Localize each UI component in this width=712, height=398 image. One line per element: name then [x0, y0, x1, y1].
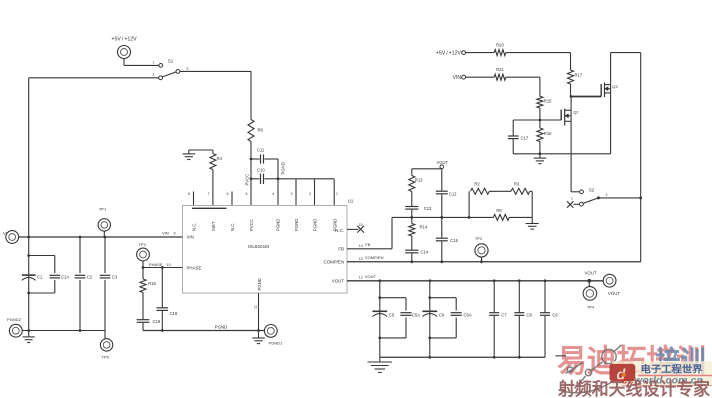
svg-text:TP2: TP2 — [475, 236, 483, 241]
svg-text:PHASE: PHASE — [149, 262, 163, 267]
svg-text:C14: C14 — [421, 249, 429, 254]
svg-text:R16: R16 — [544, 131, 552, 136]
svg-text:Q3: Q3 — [612, 84, 618, 89]
svg-text:3: 3 — [186, 67, 188, 71]
svg-text:S1: S1 — [168, 59, 174, 64]
svg-text:C15: C15 — [450, 238, 458, 243]
svg-text:VIN: VIN — [187, 234, 194, 239]
svg-text:1: 1 — [153, 61, 155, 65]
svg-text:7: 7 — [208, 192, 210, 196]
svg-text:PGND: PGND — [257, 278, 262, 290]
svg-text:VIN: VIN — [162, 231, 169, 236]
svg-text:3: 3 — [606, 193, 608, 197]
svg-text:ISL8201M: ISL8201M — [248, 244, 269, 249]
svg-text:14: 14 — [359, 244, 363, 248]
svg-text:C5: C5 — [389, 313, 395, 318]
svg-text:1: 1 — [571, 197, 573, 201]
svg-text:ISET: ISET — [211, 221, 216, 231]
svg-text:COMP/EN: COMP/EN — [365, 255, 384, 260]
svg-text:C6A: C6A — [464, 313, 472, 318]
svg-text:PGND: PGND — [294, 219, 299, 231]
svg-text:R13: R13 — [415, 177, 423, 182]
svg-text:R2: R2 — [474, 182, 480, 187]
svg-text:COMP/EN: COMP/EN — [324, 260, 345, 265]
svg-text:TP1: TP1 — [99, 207, 107, 212]
svg-text:PGND: PGND — [281, 162, 286, 174]
svg-text:10: 10 — [167, 263, 171, 267]
svg-text:2: 2 — [309, 192, 311, 196]
svg-text:R21: R21 — [496, 67, 504, 72]
svg-text:C8: C8 — [527, 313, 533, 318]
svg-text:FB: FB — [338, 246, 344, 251]
svg-text:11: 11 — [254, 305, 258, 309]
svg-text:VOUT: VOUT — [365, 274, 377, 279]
svg-text:VOUT: VOUT — [436, 160, 448, 165]
svg-text:PVCC: PVCC — [249, 219, 254, 231]
svg-text:13: 13 — [359, 257, 363, 261]
svg-text:电子工程世界: 电子工程世界 — [641, 364, 704, 375]
svg-text:R8: R8 — [258, 128, 264, 133]
svg-text:C12: C12 — [449, 191, 457, 196]
svg-text:C2: C2 — [87, 275, 93, 280]
svg-text:PHASE: PHASE — [187, 265, 202, 270]
svg-text:C18: C18 — [153, 319, 161, 324]
svg-text:S2: S2 — [589, 187, 595, 192]
svg-text:射频和天线设计专家: 射频和天线设计专家 — [557, 379, 710, 398]
svg-text:R14: R14 — [420, 225, 428, 230]
svg-text:C5A: C5A — [412, 313, 420, 318]
svg-text:R3: R3 — [514, 182, 520, 187]
svg-text:R18: R18 — [148, 281, 156, 286]
svg-text:U1: U1 — [348, 199, 354, 204]
svg-text:C1: C1 — [37, 275, 43, 280]
svg-text:C1A: C1A — [61, 275, 69, 280]
svg-text:12: 12 — [359, 276, 363, 280]
svg-text:TP4: TP4 — [587, 304, 595, 309]
svg-text:+5V / +12V: +5V / +12V — [111, 37, 137, 43]
svg-text:3: 3 — [291, 192, 293, 196]
svg-text:PVCC: PVCC — [245, 174, 250, 186]
svg-text:R17: R17 — [575, 73, 583, 78]
svg-text:PGND: PGND — [276, 219, 281, 231]
svg-text:VOUT: VOUT — [608, 291, 621, 296]
svg-text:R20: R20 — [496, 42, 504, 47]
svg-text:FB: FB — [365, 242, 370, 247]
svg-text:R15: R15 — [544, 98, 552, 103]
svg-text:15: 15 — [359, 223, 363, 227]
svg-text:1: 1 — [153, 73, 155, 77]
svg-text:8: 8 — [188, 192, 190, 196]
svg-text:N.C.: N.C. — [192, 222, 197, 231]
svg-text:C19: C19 — [170, 311, 178, 316]
svg-text:C17: C17 — [521, 136, 529, 141]
svg-text:C11: C11 — [257, 148, 265, 153]
svg-text:C9: C9 — [552, 313, 558, 318]
svg-text:PGND: PGND — [215, 325, 228, 330]
svg-text:6: 6 — [227, 192, 229, 196]
svg-text:1: 1 — [336, 192, 338, 196]
svg-text:VIN: VIN — [453, 75, 462, 81]
svg-text:+5V / +12V: +5V / +12V — [436, 50, 462, 56]
svg-text:4: 4 — [272, 192, 274, 196]
svg-text:N.C.: N.C. — [230, 222, 235, 231]
svg-text:C7: C7 — [501, 313, 507, 318]
svg-text:9: 9 — [174, 232, 176, 236]
svg-text:C13: C13 — [424, 206, 432, 211]
svg-text:C10: C10 — [257, 168, 265, 173]
svg-text:C6: C6 — [439, 313, 445, 318]
svg-text:VOUT: VOUT — [332, 279, 345, 284]
svg-text:PGND: PGND — [313, 219, 318, 231]
svg-text:C3: C3 — [112, 275, 118, 280]
svg-text:PGND2: PGND2 — [7, 317, 22, 322]
svg-text:PGND1: PGND1 — [269, 341, 284, 346]
svg-text:Q2: Q2 — [573, 109, 579, 114]
svg-text:5: 5 — [246, 192, 248, 196]
svg-text:TP5: TP5 — [102, 355, 110, 360]
svg-text:VOUT: VOUT — [584, 270, 597, 275]
svg-text:N.C.: N.C. — [335, 228, 344, 233]
svg-text:R4: R4 — [217, 156, 223, 161]
svg-text:TP3: TP3 — [138, 242, 146, 247]
svg-text:R8: R8 — [496, 208, 502, 213]
